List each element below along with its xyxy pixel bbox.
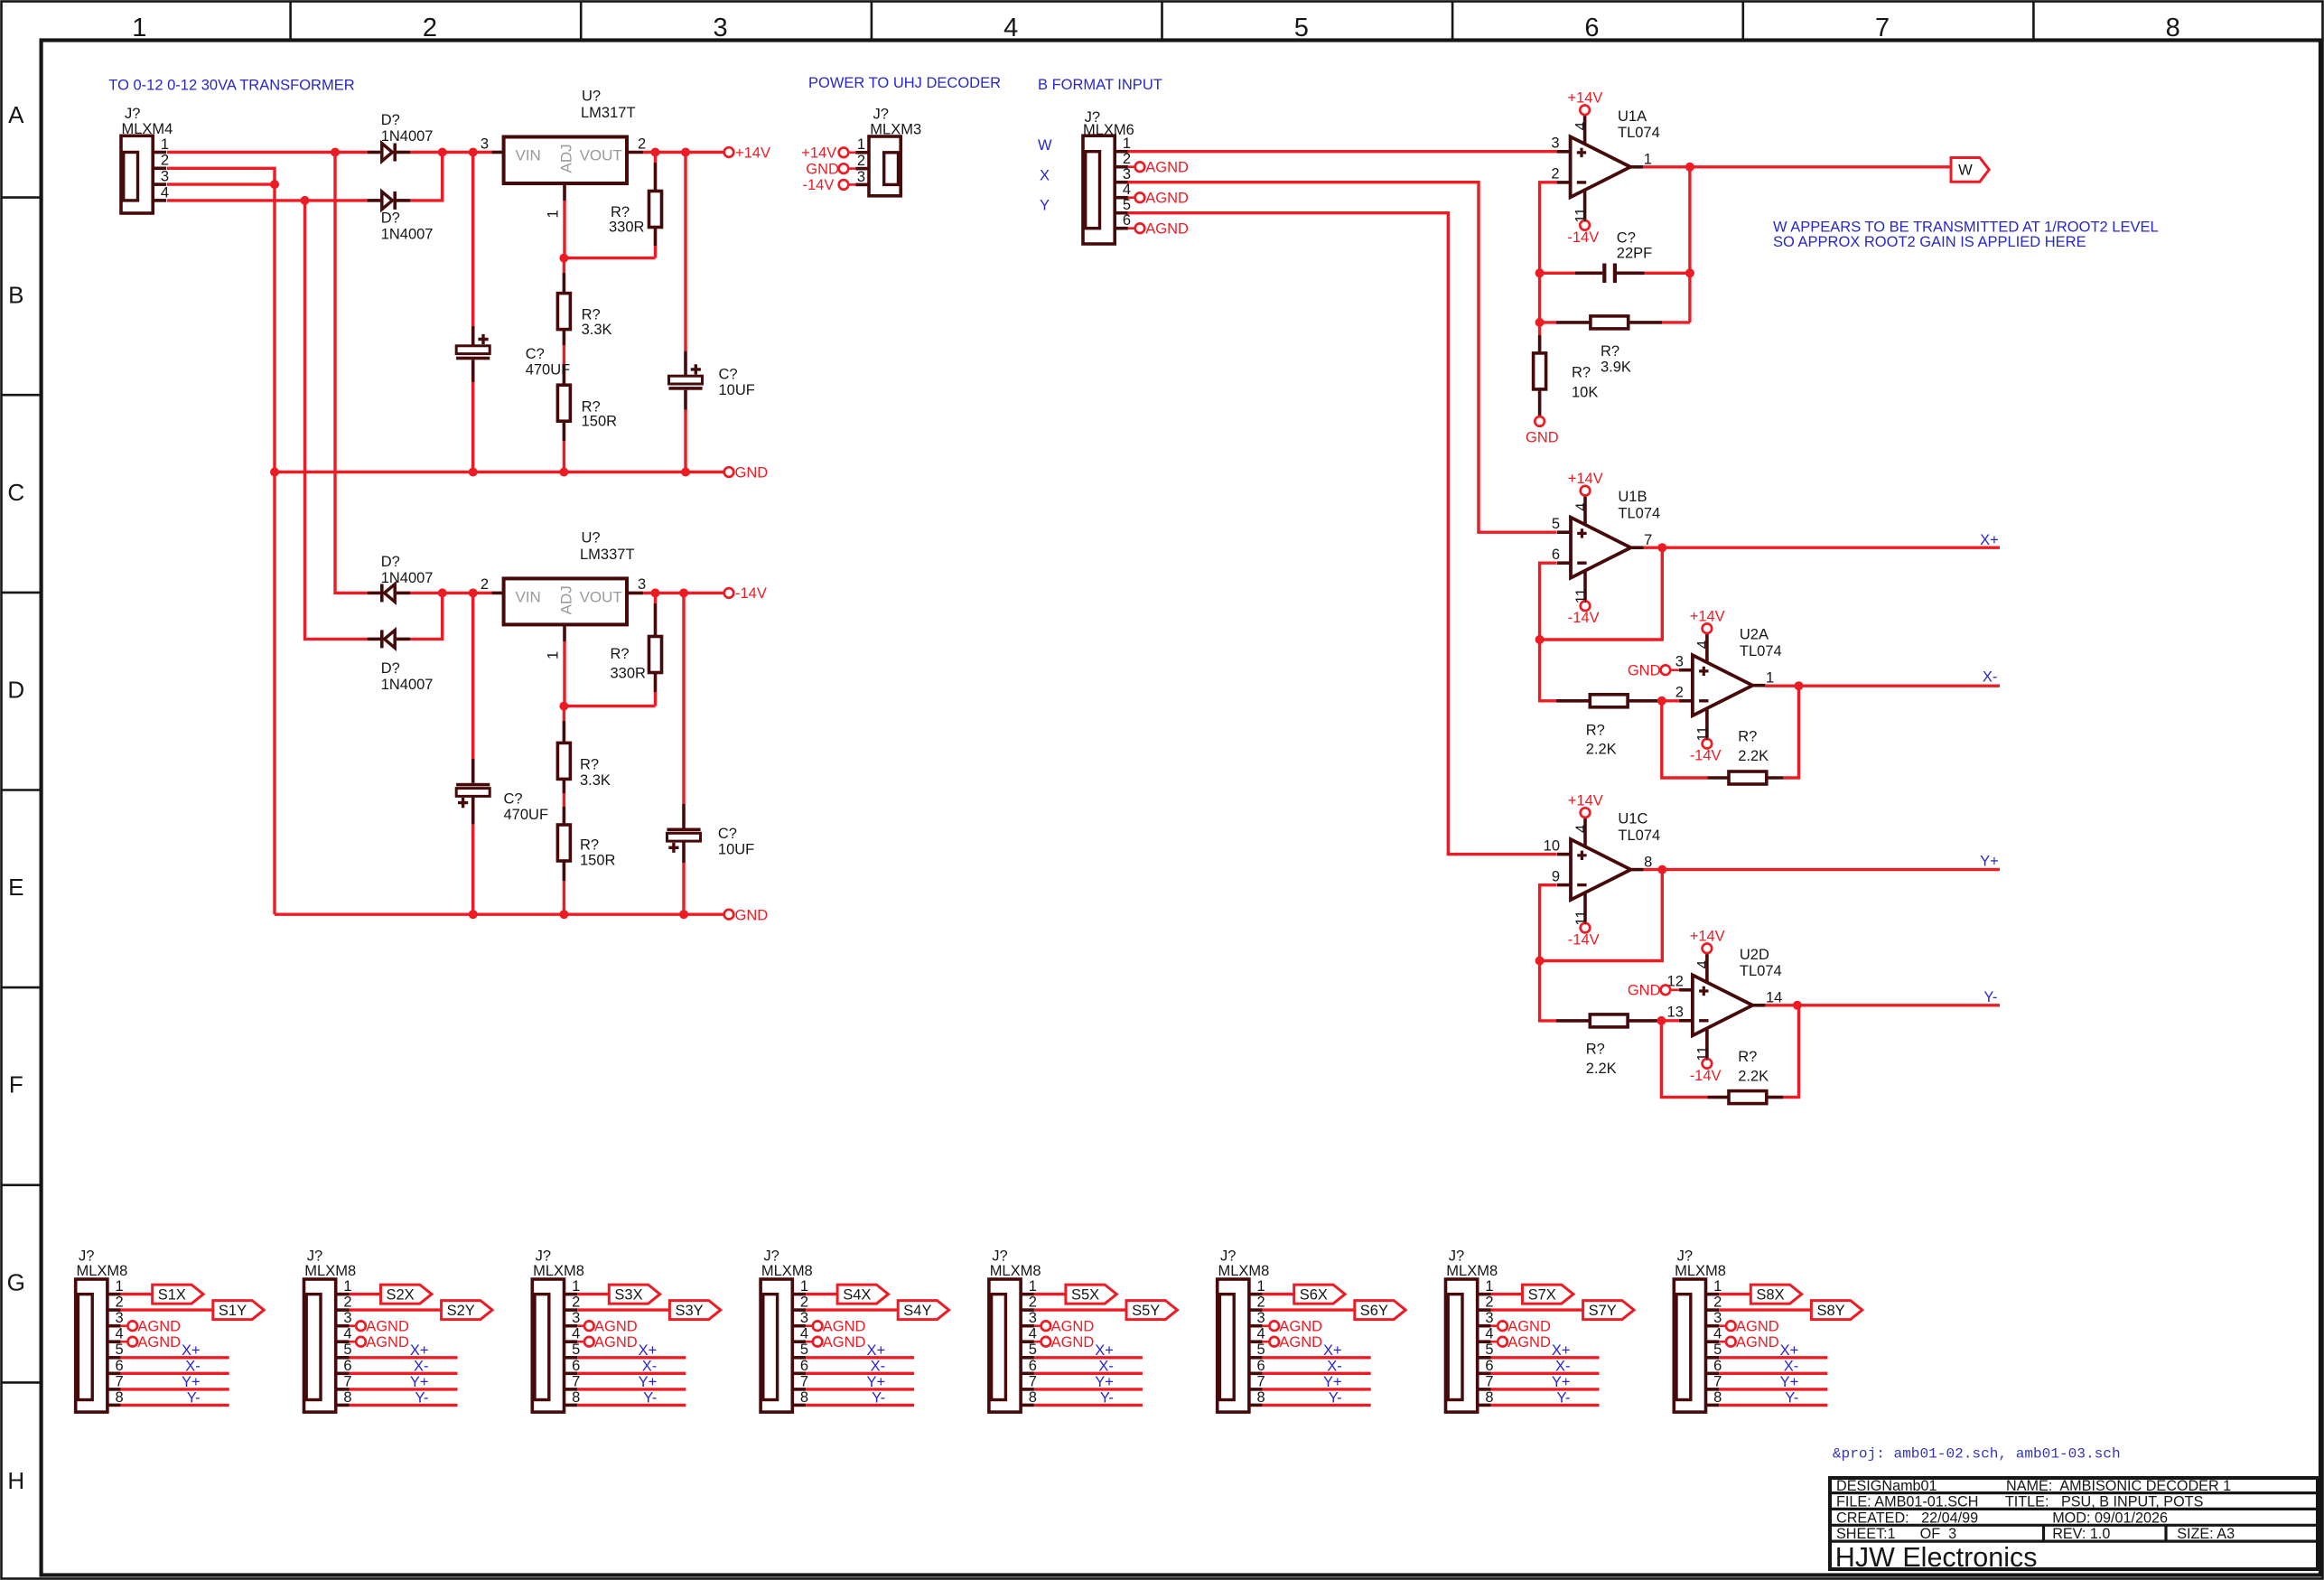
svg-text:2.2K: 2.2K — [1738, 748, 1769, 764]
svg-text:AGND: AGND — [823, 1334, 866, 1351]
svg-text:MLXM8: MLXM8 — [990, 1263, 1041, 1279]
svg-text:J?: J? — [1677, 1248, 1693, 1265]
svg-text:4: 4 — [1573, 825, 1590, 833]
svg-text:S5Y: S5Y — [1132, 1303, 1160, 1319]
svg-text:Y-: Y- — [1785, 1389, 1798, 1406]
svg-text:14: 14 — [1766, 990, 1782, 1006]
svg-text:W: W — [1038, 137, 1052, 154]
svg-text:S8Y: S8Y — [1817, 1303, 1845, 1319]
svg-text:1: 1 — [1766, 669, 1774, 686]
svg-text:D: D — [7, 677, 24, 704]
svg-text:SO APPROX ROOT2 GAIN IS APPLIE: SO APPROX ROOT2 GAIN IS APPLIED HERE — [1773, 234, 2086, 250]
svg-text:AGND: AGND — [594, 1334, 638, 1351]
svg-text:330R: 330R — [611, 666, 647, 682]
svg-text:U2D: U2D — [1740, 947, 1769, 963]
svg-text:1: 1 — [1644, 152, 1652, 168]
svg-text:SHEET:1 OF 3: SHEET:1 OF 3 — [1836, 1526, 1956, 1542]
svg-text:X-: X- — [1555, 1358, 1571, 1374]
svg-text:6: 6 — [572, 1358, 580, 1374]
svg-text:8: 8 — [800, 1389, 808, 1406]
svg-text:R?: R? — [1586, 1042, 1605, 1058]
svg-text:1: 1 — [1029, 1278, 1037, 1295]
svg-text:6: 6 — [800, 1358, 808, 1374]
svg-text:X-: X- — [1327, 1358, 1342, 1374]
svg-text:13: 13 — [1667, 1005, 1684, 1021]
svg-text:C?: C? — [719, 367, 738, 383]
svg-text:W: W — [1958, 163, 1973, 179]
svg-text:2: 2 — [857, 153, 865, 169]
svg-text:ADJ: ADJ — [558, 144, 575, 173]
svg-text:X-: X- — [1983, 669, 1998, 686]
svg-text:2.2K: 2.2K — [1586, 742, 1617, 758]
svg-text:Y+: Y+ — [1780, 1374, 1799, 1390]
svg-text:W APPEARS TO BE TRANSMITTED AT: W APPEARS TO BE TRANSMITTED AT 1/ROOT2 L… — [1773, 220, 2159, 236]
svg-text:2: 2 — [1029, 1295, 1037, 1311]
svg-text:S6X: S6X — [1300, 1286, 1328, 1303]
svg-text:1: 1 — [161, 136, 169, 153]
svg-text:REV: 1.0: REV: 1.0 — [2052, 1526, 2110, 1542]
svg-text:A: A — [8, 101, 24, 128]
svg-text:AGND: AGND — [1145, 190, 1189, 206]
svg-text:X+: X+ — [182, 1342, 201, 1359]
svg-text:S5X: S5X — [1071, 1286, 1099, 1303]
svg-text:6: 6 — [1029, 1358, 1037, 1374]
svg-text:4: 4 — [1573, 122, 1589, 130]
svg-text:MLXM4: MLXM4 — [122, 121, 173, 137]
svg-text:X+: X+ — [1980, 532, 1999, 548]
svg-text:HJW Electronics: HJW Electronics — [1835, 1542, 2038, 1573]
svg-text:+14V: +14V — [1568, 792, 1603, 809]
svg-text:3: 3 — [1123, 166, 1131, 182]
svg-text:3: 3 — [481, 136, 489, 152]
svg-text:+14V: +14V — [1568, 471, 1603, 487]
svg-text:X-: X- — [642, 1358, 658, 1374]
svg-text:Y-: Y- — [872, 1389, 885, 1406]
svg-text:3: 3 — [343, 1310, 351, 1326]
svg-text:-14V: -14V — [1568, 932, 1600, 949]
svg-text:10K: 10K — [1572, 384, 1598, 400]
svg-text:ADJ: ADJ — [558, 585, 575, 614]
svg-text:5: 5 — [572, 1342, 580, 1358]
svg-text:3: 3 — [714, 14, 728, 42]
svg-text:3: 3 — [1485, 1310, 1493, 1326]
svg-text:C?: C? — [526, 346, 545, 362]
svg-text:11: 11 — [1573, 208, 1589, 223]
svg-text:1: 1 — [1485, 1278, 1493, 1295]
svg-text:J?: J? — [536, 1248, 551, 1265]
svg-text:R?: R? — [1738, 729, 1757, 745]
svg-text:X-: X- — [1784, 1358, 1799, 1374]
svg-text:Y+: Y+ — [410, 1374, 429, 1390]
svg-text:Y+: Y+ — [1980, 854, 1999, 870]
svg-text:4: 4 — [161, 184, 169, 201]
svg-text:AGND: AGND — [1736, 1334, 1779, 1351]
svg-text:MLXM8: MLXM8 — [77, 1263, 128, 1279]
svg-text:2.2K: 2.2K — [1586, 1061, 1617, 1077]
svg-text:4: 4 — [1713, 1326, 1722, 1342]
svg-text:3: 3 — [800, 1310, 808, 1326]
svg-text:4: 4 — [572, 1326, 580, 1342]
svg-text:6: 6 — [1713, 1358, 1722, 1374]
svg-text:Y-: Y- — [1557, 1389, 1571, 1406]
svg-text:3: 3 — [638, 576, 646, 593]
svg-text:1: 1 — [1257, 1278, 1265, 1295]
svg-text:S2Y: S2Y — [447, 1303, 475, 1319]
svg-text:-14V: -14V — [1568, 610, 1600, 626]
svg-text:VIN: VIN — [516, 588, 541, 605]
svg-text:7: 7 — [1485, 1373, 1493, 1389]
svg-text:X-: X- — [185, 1358, 201, 1374]
svg-text:8: 8 — [572, 1389, 580, 1406]
svg-text:D?: D? — [381, 554, 400, 570]
svg-text:-14V: -14V — [1690, 1068, 1722, 1084]
svg-text:TL074: TL074 — [1618, 125, 1660, 141]
svg-text:Y-: Y- — [415, 1389, 429, 1406]
svg-text:4: 4 — [1123, 182, 1131, 198]
svg-text:+14V: +14V — [1690, 929, 1725, 945]
svg-text:X+: X+ — [1552, 1342, 1571, 1359]
svg-text:MLXM3: MLXM3 — [870, 122, 921, 138]
svg-text:U1C: U1C — [1618, 811, 1647, 827]
svg-text:+14V: +14V — [1567, 90, 1602, 107]
svg-text:MLXM8: MLXM8 — [761, 1263, 813, 1279]
svg-text:-14V: -14V — [1690, 748, 1722, 764]
svg-text:Y+: Y+ — [639, 1374, 658, 1390]
svg-text:U1B: U1B — [1618, 489, 1647, 505]
svg-text:AGND: AGND — [1507, 1334, 1551, 1351]
svg-text:R?: R? — [580, 757, 599, 773]
svg-text:6: 6 — [1485, 1358, 1493, 1374]
svg-text:Y-: Y- — [1983, 989, 1997, 1005]
svg-text:AGND: AGND — [137, 1334, 181, 1351]
svg-text:R?: R? — [611, 646, 630, 662]
svg-text:3.9K: 3.9K — [1601, 359, 1631, 375]
svg-text:S2X: S2X — [387, 1286, 415, 1303]
svg-text:J?: J? — [992, 1248, 1007, 1265]
svg-text:5: 5 — [1485, 1342, 1493, 1358]
svg-text:+14V: +14V — [801, 145, 836, 162]
svg-text:7: 7 — [343, 1373, 351, 1389]
svg-text:3: 3 — [572, 1310, 580, 1326]
svg-text:1: 1 — [572, 1278, 580, 1295]
svg-text:5: 5 — [116, 1342, 124, 1358]
svg-text:X+: X+ — [866, 1342, 885, 1359]
svg-text:4: 4 — [1695, 960, 1712, 968]
svg-text:LM317T: LM317T — [581, 105, 636, 121]
svg-text:7: 7 — [1257, 1373, 1265, 1389]
svg-text:7: 7 — [1875, 14, 1890, 42]
svg-text:3: 3 — [1257, 1310, 1265, 1326]
svg-text:DESIGNamb01: DESIGNamb01 — [1836, 1478, 1937, 1494]
svg-text:S3X: S3X — [614, 1286, 642, 1303]
svg-text:GND: GND — [806, 161, 839, 177]
svg-text:150R: 150R — [582, 414, 618, 430]
svg-text:Y+: Y+ — [1552, 1374, 1571, 1390]
svg-text:J?: J? — [1449, 1248, 1464, 1265]
svg-text:3.3K: 3.3K — [582, 322, 612, 338]
svg-text:TITLE: PSU, B INPUT, POTS: TITLE: PSU, B INPUT, POTS — [2005, 1494, 2204, 1510]
svg-text:AGND: AGND — [366, 1334, 409, 1351]
svg-text:Y-: Y- — [1100, 1389, 1114, 1406]
svg-text:5: 5 — [1552, 516, 1560, 532]
svg-text:Y+: Y+ — [1095, 1374, 1114, 1390]
svg-text:Y-: Y- — [187, 1389, 201, 1406]
svg-text:TL074: TL074 — [1740, 643, 1782, 659]
svg-text:J?: J? — [79, 1248, 94, 1265]
svg-text:U2A: U2A — [1740, 627, 1769, 643]
svg-text:5: 5 — [1029, 1342, 1037, 1358]
svg-text:R?: R? — [1738, 1049, 1757, 1065]
svg-text:4: 4 — [1003, 14, 1018, 42]
svg-text:AGND: AGND — [1145, 159, 1189, 175]
svg-text:1: 1 — [800, 1278, 808, 1295]
svg-text:H: H — [7, 1467, 24, 1494]
svg-text:8: 8 — [2166, 14, 2180, 42]
svg-text:3: 3 — [1551, 136, 1559, 152]
svg-text:3: 3 — [1675, 654, 1684, 670]
svg-text:2: 2 — [116, 1295, 124, 1311]
svg-text:2: 2 — [1675, 685, 1684, 701]
svg-text:1: 1 — [116, 1278, 124, 1295]
svg-text:R?: R? — [611, 204, 630, 220]
svg-text:6: 6 — [116, 1358, 124, 1374]
svg-text:X+: X+ — [1323, 1342, 1342, 1359]
svg-text:2: 2 — [1257, 1295, 1265, 1311]
svg-text:2: 2 — [800, 1295, 808, 1311]
svg-text:1N4007: 1N4007 — [381, 570, 434, 586]
svg-text:J?: J? — [307, 1248, 322, 1265]
svg-text:5: 5 — [343, 1342, 351, 1358]
svg-text:VOUT: VOUT — [580, 147, 622, 164]
svg-text:TO 0-12 0-12 30VA TRANSFORMER: TO 0-12 0-12 30VA TRANSFORMER — [108, 77, 354, 93]
svg-text:AGND: AGND — [1051, 1318, 1095, 1334]
svg-text:4: 4 — [1257, 1326, 1265, 1342]
svg-text:3: 3 — [161, 169, 169, 185]
svg-text:B: B — [8, 281, 23, 308]
svg-text:AGND: AGND — [1279, 1318, 1322, 1334]
svg-text:AGND: AGND — [1145, 220, 1189, 237]
svg-text:Y+: Y+ — [182, 1374, 201, 1390]
svg-text:11: 11 — [1695, 1046, 1712, 1061]
svg-text:S1Y: S1Y — [219, 1303, 247, 1319]
svg-text:470UF: 470UF — [526, 361, 571, 378]
svg-text:TL074: TL074 — [1740, 963, 1782, 979]
svg-text:8: 8 — [343, 1389, 351, 1406]
svg-text:4: 4 — [1485, 1326, 1493, 1342]
svg-text:AGND: AGND — [1507, 1318, 1551, 1334]
svg-text:2: 2 — [1713, 1295, 1722, 1311]
svg-text:AGND: AGND — [594, 1318, 638, 1334]
svg-text:AGND: AGND — [1736, 1318, 1779, 1334]
svg-text:Y+: Y+ — [866, 1374, 885, 1390]
svg-text:10UF: 10UF — [719, 382, 755, 398]
svg-text:8: 8 — [1644, 854, 1652, 870]
svg-text:Y: Y — [1040, 198, 1050, 214]
svg-text:G: G — [7, 1268, 25, 1295]
svg-text:4: 4 — [800, 1326, 808, 1342]
svg-text:U?: U? — [582, 529, 601, 546]
svg-text:GND: GND — [1628, 663, 1661, 679]
svg-text:B FORMAT INPUT: B FORMAT INPUT — [1038, 77, 1162, 93]
svg-text:2: 2 — [481, 576, 489, 593]
svg-text:C?: C? — [504, 791, 523, 808]
svg-text:VOUT: VOUT — [580, 588, 622, 605]
svg-text:8: 8 — [1029, 1389, 1037, 1406]
svg-text:E: E — [8, 874, 23, 901]
svg-text:AGND: AGND — [823, 1318, 866, 1334]
svg-text:VIN: VIN — [516, 147, 541, 164]
svg-text:S7X: S7X — [1528, 1286, 1556, 1303]
svg-text:2: 2 — [161, 153, 169, 169]
svg-text:6: 6 — [343, 1358, 351, 1374]
svg-text:Y+: Y+ — [1323, 1374, 1342, 1390]
svg-text:7: 7 — [1644, 532, 1652, 548]
svg-text:5: 5 — [1294, 14, 1309, 42]
svg-text:C?: C? — [1617, 229, 1636, 246]
svg-text:J?: J? — [1220, 1248, 1236, 1265]
svg-text:MLXM6: MLXM6 — [1083, 122, 1134, 138]
svg-text:NAME: AMBISONIC DECODER 1: NAME: AMBISONIC DECODER 1 — [2006, 1478, 2231, 1494]
svg-text:2: 2 — [1485, 1295, 1493, 1311]
svg-text:7: 7 — [572, 1373, 580, 1389]
svg-text:8: 8 — [116, 1389, 124, 1406]
svg-text:MOD: 09/01/2026: MOD: 09/01/2026 — [2052, 1510, 2168, 1526]
svg-text:7: 7 — [1029, 1373, 1037, 1389]
svg-text:11: 11 — [1695, 726, 1712, 742]
svg-text:4: 4 — [343, 1326, 351, 1342]
svg-text:3: 3 — [1029, 1310, 1037, 1326]
svg-text:TL074: TL074 — [1618, 506, 1660, 522]
svg-text:4: 4 — [1695, 640, 1712, 649]
svg-text:11: 11 — [1573, 588, 1590, 603]
svg-text:4: 4 — [1029, 1326, 1037, 1342]
svg-text:MLXM8: MLXM8 — [533, 1263, 584, 1279]
svg-text:SIZE: A3: SIZE: A3 — [2177, 1526, 2235, 1542]
svg-text:1: 1 — [132, 14, 146, 42]
svg-text:+14V: +14V — [735, 145, 770, 161]
svg-text:-14V: -14V — [735, 585, 767, 602]
svg-text:X+: X+ — [410, 1342, 429, 1359]
svg-text:11: 11 — [1573, 910, 1590, 925]
svg-text:D?: D? — [381, 112, 400, 128]
svg-text:R?: R? — [1586, 722, 1605, 738]
svg-text:X-: X- — [414, 1358, 429, 1374]
svg-text:S8X: S8X — [1756, 1286, 1784, 1303]
svg-text:3: 3 — [1713, 1310, 1722, 1326]
svg-text:X+: X+ — [1780, 1342, 1799, 1359]
svg-text:1: 1 — [546, 651, 562, 659]
svg-text:X+: X+ — [1095, 1342, 1114, 1359]
svg-text:2: 2 — [1551, 166, 1559, 182]
svg-text:GND: GND — [735, 465, 769, 481]
svg-text:7: 7 — [1713, 1373, 1722, 1389]
svg-text:S6Y: S6Y — [1360, 1303, 1388, 1319]
svg-text:8: 8 — [1485, 1389, 1493, 1406]
svg-text:S4Y: S4Y — [903, 1303, 931, 1319]
svg-text:U?: U? — [582, 89, 601, 105]
svg-text:MLXM8: MLXM8 — [304, 1263, 356, 1279]
svg-text:U1A: U1A — [1618, 108, 1647, 125]
svg-text:1N4007: 1N4007 — [381, 227, 434, 243]
svg-text:MLXM8: MLXM8 — [1675, 1263, 1726, 1279]
svg-text:5: 5 — [1257, 1342, 1265, 1358]
svg-text:POWER TO UHJ DECODER: POWER TO UHJ DECODER — [808, 75, 1001, 91]
svg-text:C: C — [7, 479, 24, 506]
svg-text:4: 4 — [1573, 503, 1590, 511]
svg-text:LM337T: LM337T — [580, 547, 635, 563]
svg-text:R?: R? — [582, 307, 601, 323]
svg-text:2: 2 — [423, 14, 437, 42]
svg-text:GND: GND — [735, 907, 769, 923]
svg-text:TL074: TL074 — [1618, 827, 1660, 844]
svg-text:FILE: AMB01-01.SCH: FILE: AMB01-01.SCH — [1836, 1494, 1978, 1510]
svg-text:22PF: 22PF — [1617, 246, 1652, 262]
svg-text:F: F — [9, 1071, 23, 1099]
svg-text:5: 5 — [800, 1342, 808, 1358]
svg-text:1: 1 — [546, 210, 562, 218]
svg-text:J?: J? — [763, 1248, 779, 1265]
svg-text:2: 2 — [572, 1295, 580, 1311]
svg-text:1N4007: 1N4007 — [381, 677, 434, 693]
svg-text:X-: X- — [1098, 1358, 1114, 1374]
svg-text:5: 5 — [1713, 1342, 1722, 1358]
svg-text:D?: D? — [381, 210, 400, 226]
svg-text:GND: GND — [1526, 430, 1559, 446]
svg-text:R?: R? — [1601, 343, 1619, 360]
svg-text:R?: R? — [1572, 364, 1591, 380]
svg-text:Y-: Y- — [643, 1389, 657, 1406]
svg-text:AGND: AGND — [137, 1318, 181, 1334]
svg-text:8: 8 — [1713, 1389, 1722, 1406]
svg-text:2: 2 — [1123, 151, 1131, 167]
svg-text:1: 1 — [1713, 1278, 1722, 1295]
svg-text:6: 6 — [1584, 14, 1599, 42]
svg-text:1: 1 — [857, 136, 865, 153]
svg-text:S4X: S4X — [843, 1286, 871, 1303]
svg-text:10: 10 — [1544, 837, 1560, 854]
svg-text:9: 9 — [1552, 868, 1560, 884]
svg-text:S7Y: S7Y — [1589, 1303, 1617, 1319]
svg-text:S1X: S1X — [158, 1286, 186, 1303]
svg-text:CREATED: 22/04/99: CREATED: 22/04/99 — [1836, 1510, 1978, 1526]
svg-text:3: 3 — [857, 169, 865, 185]
svg-text:150R: 150R — [580, 853, 616, 869]
svg-text:+14V: +14V — [1690, 609, 1725, 625]
svg-text:4: 4 — [116, 1326, 124, 1342]
svg-text:5: 5 — [1123, 197, 1131, 213]
svg-text:6: 6 — [1123, 212, 1131, 229]
svg-text:7: 7 — [800, 1373, 808, 1389]
svg-text:3.3K: 3.3K — [580, 772, 611, 789]
svg-text:3: 3 — [116, 1310, 124, 1326]
svg-text:10UF: 10UF — [718, 841, 754, 857]
svg-text:2: 2 — [343, 1295, 351, 1311]
svg-text:X: X — [1040, 168, 1050, 184]
svg-text:J?: J? — [125, 106, 140, 122]
svg-text:AGND: AGND — [366, 1318, 409, 1334]
svg-text:R?: R? — [580, 837, 599, 853]
svg-text:&proj: amb01-02.sch, amb01-03.: &proj: amb01-02.sch, amb01-03.sch — [1833, 1446, 2121, 1463]
svg-text:2: 2 — [638, 136, 646, 152]
svg-text:1: 1 — [343, 1278, 351, 1295]
svg-text:X+: X+ — [639, 1342, 658, 1359]
svg-text:GND: GND — [1628, 983, 1661, 999]
svg-text:-14V: -14V — [803, 177, 835, 193]
svg-text:1N4007: 1N4007 — [381, 128, 434, 145]
svg-text:C?: C? — [718, 826, 737, 842]
svg-text:330R: 330R — [609, 220, 645, 236]
svg-text:J?: J? — [873, 107, 889, 123]
